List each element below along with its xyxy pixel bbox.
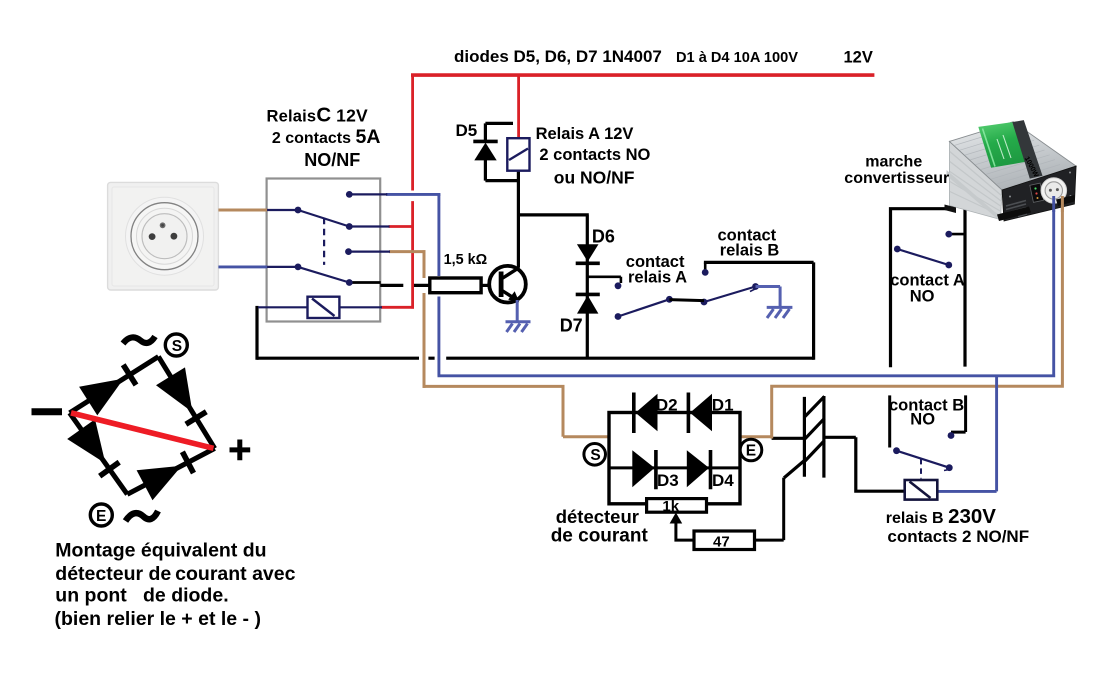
svg-text:diodes D5, D6, D7 1N4007: diodes D5, D6, D7 1N4007 (454, 47, 662, 66)
svg-text:NO: NO (910, 288, 935, 306)
svg-text:NO: NO (910, 411, 935, 429)
svg-text:Relais A 12V: Relais A 12V (536, 125, 634, 143)
svg-text:E: E (746, 443, 756, 460)
svg-text:1k: 1k (662, 498, 679, 515)
svg-text:S: S (590, 447, 600, 464)
svg-text:D2: D2 (656, 396, 678, 415)
svg-text:convertisseur: convertisseur (844, 170, 949, 187)
svg-text:1,5 kΩ: 1,5 kΩ (444, 252, 488, 268)
svg-text:D4: D4 (712, 471, 734, 490)
svg-text:D6: D6 (592, 227, 615, 247)
svg-text:D1 à D4 10A 100V: D1 à D4 10A 100V (676, 50, 798, 66)
svg-text:NO/NF: NO/NF (304, 150, 360, 170)
svg-text:S: S (172, 338, 182, 355)
svg-text:relais B: relais B (720, 242, 780, 260)
svg-text:D1: D1 (712, 396, 734, 415)
svg-text:Montage équivalent du: Montage équivalent du (55, 540, 266, 562)
svg-text:un pont de diode.: un pont de diode. (55, 585, 228, 607)
svg-text:D5: D5 (456, 121, 478, 140)
svg-text:marche: marche (865, 154, 922, 171)
svg-text:D7: D7 (560, 316, 583, 336)
svg-text:contacts 2 NO/NF: contacts 2 NO/NF (887, 527, 1029, 546)
svg-text:relais A: relais A (628, 269, 687, 287)
svg-text:de courant: de courant (551, 526, 649, 547)
svg-text:détecteur de courant avec: détecteur de courant avec (55, 563, 295, 585)
svg-text:ou NO/NF: ou NO/NF (554, 168, 635, 188)
svg-text:D3: D3 (657, 471, 679, 490)
svg-text:RelaisC 12V: RelaisC 12V (267, 104, 369, 127)
svg-text:détecteur: détecteur (556, 506, 639, 527)
svg-text:47: 47 (713, 534, 730, 551)
svg-text:E: E (96, 508, 106, 525)
svg-text:(bien relier le + et le - ): (bien relier le + et le - ) (55, 608, 261, 630)
svg-text:2 contacts 5A: 2 contacts 5A (272, 126, 381, 148)
svg-text:2 contacts NO: 2 contacts NO (539, 146, 650, 164)
svg-text:12V: 12V (844, 49, 873, 67)
